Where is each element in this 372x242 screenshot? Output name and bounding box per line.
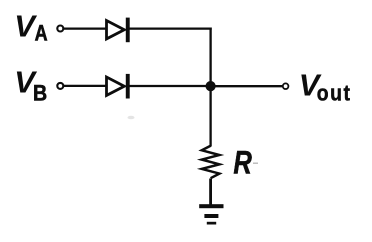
diode D1 cathode bar (126, 18, 130, 43)
wire VA terminal to diode D1 anode (64, 27, 107, 29)
svg-text:R: R (233, 146, 252, 181)
junction node dot (206, 81, 216, 91)
ground bar 3 (207, 222, 216, 225)
terminal VB (57, 83, 63, 89)
faint artifact dash right of R (253, 163, 258, 164)
diode D1 triangle (107, 21, 125, 39)
terminal VA (57, 26, 63, 32)
diode D2 triangle (107, 77, 125, 95)
ground bar 2 (204, 214, 218, 218)
terminal Vout (283, 83, 289, 89)
svg-text:out: out (317, 81, 352, 106)
ground bar 1 (199, 204, 223, 208)
wire D2 cathode to junction (130, 85, 211, 87)
wire junction to Vout terminal (211, 85, 283, 87)
wire resistor to ground (209, 179, 212, 205)
faint artifact speck below diode A (128, 116, 135, 120)
svg-text:A: A (35, 22, 48, 46)
svg-text:V: V (14, 8, 37, 43)
wire junction down to resistor R (209, 86, 211, 146)
svg-text:B: B (33, 81, 47, 105)
diode D2 cathode bar (126, 74, 130, 99)
wire corner down to junction (209, 28, 211, 87)
wire D1 cathode to corner (130, 27, 212, 29)
wire VB terminal to diode D2 anode (64, 85, 107, 87)
resistor R zigzag (202, 146, 220, 178)
